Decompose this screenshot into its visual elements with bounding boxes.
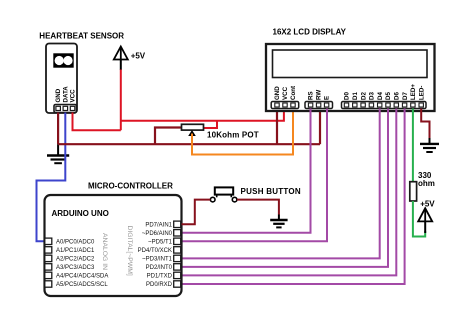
svg-text:A0/PC0/ADC0: A0/PC0/ADC0 — [56, 240, 95, 246]
LCD pin label D0 — [344, 92, 351, 100]
LCD pin label D3 — [369, 92, 376, 100]
wire +5V stem down (red) — [120, 70, 122, 131]
pot value label — [207, 131, 259, 140]
svg-text:PD0/RXD: PD0/RXD — [146, 282, 173, 288]
svg-text:D2: D2 — [360, 92, 367, 100]
LCD pin label RS — [308, 91, 315, 100]
svg-text:D7: D7 — [402, 92, 409, 100]
heartbeat sensor label — [39, 32, 124, 41]
Arduino UNO U3 body — [45, 195, 182, 296]
svg-text:GND: GND — [274, 86, 281, 100]
LCD pin label LED+ — [410, 84, 417, 100]
wire button left to PD7 (dark red) — [182, 200, 211, 225]
svg-text:+5V: +5V — [420, 200, 435, 209]
svg-text:A5/PC5/ADC5/SCL: A5/PC5/ADC5/SCL — [56, 282, 108, 288]
svg-text:A2/PC2/ADC2: A2/PC2/ADC2 — [56, 257, 95, 263]
wire LCD LED+ to resistor (green) — [412, 109, 414, 183]
svg-text:D0: D0 — [344, 92, 351, 100]
svg-text:GND: GND — [55, 88, 62, 102]
wire +5V branch to pot right (red) — [204, 121, 218, 128]
Arduino pin label A2/PC2/ADC2 — [56, 257, 95, 263]
svg-text:LED-: LED- — [418, 86, 425, 100]
LCD pin label D7 — [402, 92, 409, 100]
Arduino label DIGITAL[~PWM] — [126, 226, 133, 276]
svg-text:A3/PC3/ADC3: A3/PC3/ADC3 — [56, 265, 95, 271]
wire LCD RW down to bus — [319, 110, 321, 144]
LCD pin header group 1 — [271, 102, 299, 109]
LCD pin header group 2 — [305, 102, 333, 109]
wire sensor DATA (blue) to A0 — [37, 113, 66, 242]
LCD pin label GND — [274, 86, 281, 100]
potentiometer R2 10Kohm — [182, 124, 204, 136]
LCD pin label D2 — [360, 92, 367, 100]
svg-text:A1/PC1/ADC1: A1/PC1/ADC1 — [56, 248, 95, 254]
wire LCD D5 to PD2 (purple) — [182, 109, 389, 267]
LCD pin label D6 — [394, 92, 401, 100]
svg-text:ARDUINO UNO: ARDUINO UNO — [52, 209, 109, 218]
wire LCD LED- to ground (dark red) — [421, 109, 429, 139]
Arduino pin label ~PD5/T1 — [148, 240, 173, 246]
resistor R1 330 ohm — [410, 182, 417, 201]
svg-text:D5: D5 — [385, 92, 392, 100]
LCD pin label D1 — [352, 92, 359, 100]
svg-text:PD2/INT0: PD2/INT0 — [146, 265, 173, 271]
ground G3 (push button) — [270, 215, 287, 228]
heartbeat sensor pin header — [54, 105, 77, 113]
wire LCD RS to PD6 (purple) — [182, 109, 311, 233]
svg-text:MICRO-CONTROLLER: MICRO-CONTROLLER — [88, 182, 173, 191]
Arduino right pin boxes PD7-PD0 — [174, 221, 181, 287]
Arduino pin label PD0/RXD — [146, 282, 173, 288]
LCD pin header group 3 — [342, 102, 427, 109]
wire +5V bus to LCD VCC (red) — [121, 110, 284, 121]
LCD pin label RW — [316, 90, 323, 100]
svg-text:PD7/AIN1: PD7/AIN1 — [145, 223, 172, 229]
wire sensor VCC to +5V (red) — [73, 113, 121, 131]
svg-text:~PD5/T1: ~PD5/T1 — [148, 240, 173, 246]
Arduino left pin boxes A0-A5 — [45, 238, 52, 287]
+5V symbol P2 (bottom right) — [418, 200, 435, 234]
push button label — [241, 187, 301, 196]
resistor value label 330 ohm — [418, 171, 435, 188]
ground G2 (LED-) — [420, 138, 439, 152]
svg-text:RS: RS — [308, 91, 315, 100]
wire pot wiper to LCD Cont (orange) — [192, 110, 293, 155]
svg-text:PUSH BUTTON: PUSH BUTTON — [241, 187, 301, 196]
Arduino pin label A4/PC4/ADC4/SDA — [56, 274, 108, 280]
svg-text:D4: D4 — [377, 92, 384, 100]
wire LCD GND down to bus — [276, 110, 278, 144]
Arduino pin label PD2/INT0 — [146, 265, 173, 271]
GND bus (dark red) — [58, 143, 320, 145]
heartbeat sensor U1 body — [46, 44, 77, 114]
micro-controller label — [88, 182, 173, 191]
LCD pin label Cont — [290, 86, 297, 100]
svg-text:PD4/T0/XCK: PD4/T0/XCK — [138, 248, 172, 254]
Arduino pin label A0/PC0/ADC0 — [56, 240, 95, 246]
svg-text:HEARTBEAT SENSOR: HEARTBEAT SENSOR — [39, 32, 124, 41]
Arduino pin label PD4/T0/XCK — [138, 248, 172, 254]
sensor pin label VCC — [70, 89, 77, 103]
wire button right to ground (dark red) — [237, 200, 279, 215]
wire LCD D4 to PD3 (purple) — [182, 109, 380, 259]
wire resistor to +5V (green) — [413, 201, 425, 237]
Arduino pin label ~PD3/INT1 — [142, 257, 173, 263]
wire sensor GND down — [57, 113, 59, 145]
sensor pin label GND — [55, 88, 62, 102]
LCD pin label VCC — [282, 86, 289, 100]
svg-text:DIGITAL[~PWM]: DIGITAL[~PWM] — [126, 226, 133, 276]
sensor pin label DATA — [62, 86, 69, 103]
svg-text:PD1/TXD: PD1/TXD — [147, 274, 173, 280]
16x2 LCD display label — [273, 28, 347, 37]
Arduino pin label A1/PC1/ADC1 — [56, 248, 95, 254]
LCD pin label D4 — [377, 92, 384, 100]
+5V symbol P1 (top left) — [114, 47, 146, 71]
svg-text:10Kohm POT: 10Kohm POT — [207, 131, 259, 140]
ground G1 (sensor) — [47, 144, 69, 163]
LCD module U2 body — [266, 44, 435, 111]
svg-text:VCC: VCC — [70, 89, 77, 103]
svg-text:D3: D3 — [369, 92, 376, 100]
svg-text:RW: RW — [316, 90, 323, 100]
svg-text:VCC: VCC — [282, 86, 289, 100]
wire LCD E to PD5 (purple) — [182, 109, 328, 242]
Arduino pin label ~PD6/AIN0 — [142, 231, 173, 237]
svg-text:A4/PC4/ADC4/SDA: A4/PC4/ADC4/SDA — [56, 274, 108, 280]
svg-text:LED+: LED+ — [410, 84, 417, 100]
svg-text:E: E — [324, 96, 331, 100]
svg-text:~PD3/INT1: ~PD3/INT1 — [142, 257, 173, 263]
svg-text:DATA: DATA — [62, 86, 69, 103]
svg-text:16X2 LCD DISPLAY: 16X2 LCD DISPLAY — [273, 28, 347, 37]
svg-text:Cont: Cont — [290, 86, 297, 100]
svg-text:~PD6/AIN0: ~PD6/AIN0 — [142, 231, 173, 237]
svg-text:ANALOG IN: ANALOG IN — [101, 233, 108, 270]
wire LCD D7 to PD0 (purple) — [182, 109, 405, 285]
svg-text:D6: D6 — [394, 92, 401, 100]
push button S1 — [210, 187, 237, 202]
Arduino pin label A5/PC5/ADC5/SCL — [56, 282, 108, 288]
svg-text:D1: D1 — [352, 92, 359, 100]
wire LCD D6 to PD1 (purple) — [182, 109, 397, 276]
LCD pin label LED- — [418, 86, 425, 100]
Arduino pin label A3/PC3/ADC3 — [56, 265, 95, 271]
svg-text:ohm: ohm — [418, 179, 435, 188]
Arduino label ANALOG IN — [101, 233, 108, 270]
LCD pin label D5 — [385, 92, 392, 100]
LCD pin label E — [324, 96, 331, 100]
Arduino pin label PD7/AIN1 — [145, 223, 172, 229]
wire pot left to GND bus — [155, 128, 182, 145]
Arduino pin label PD1/TXD — [147, 274, 173, 280]
svg-text:+5V: +5V — [131, 52, 146, 61]
